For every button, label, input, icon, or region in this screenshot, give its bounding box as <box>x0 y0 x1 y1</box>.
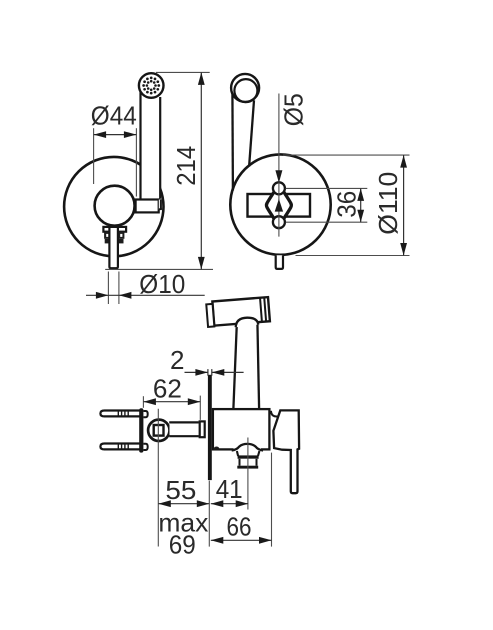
dimension 69 text <box>169 530 196 560</box>
center line side view <box>278 94 280 237</box>
spout center line bottom view <box>247 438 249 510</box>
dimension Ø110 extension lines <box>283 155 410 255</box>
dimension Ø10 text <box>139 269 185 299</box>
dimension 55 line and arrows <box>158 500 209 507</box>
control knob circle front view <box>95 186 135 226</box>
body screw dot bottom view <box>214 447 220 451</box>
svg-text:Ø44: Ø44 <box>91 100 137 130</box>
wall nut bottom view <box>200 421 205 437</box>
dimension Ø44 text <box>91 100 137 130</box>
eccentric anchor rod lower bottom view <box>100 444 141 450</box>
dimension 2 lines and arrows <box>185 369 244 376</box>
dimension 36 line and arrows <box>357 188 364 222</box>
svg-text:41: 41 <box>216 474 243 504</box>
connector rod to body bottom view <box>169 422 199 436</box>
dimension 214 text <box>171 146 201 186</box>
dimension Ø10 extension lines <box>108 272 119 305</box>
dimension 214 line and arrows <box>198 72 205 269</box>
handle bracket front view <box>136 199 162 212</box>
dimension 41 text <box>216 474 243 504</box>
outlet collar tier 1 front view <box>103 227 126 232</box>
leader arrow Ø5 pointing down <box>275 170 282 183</box>
svg-text:214: 214 <box>171 146 201 186</box>
screw circle lower side view <box>273 216 285 228</box>
svg-text:36: 36 <box>332 191 362 218</box>
spray face dots front view <box>142 77 160 95</box>
inlet union circle bottom view <box>148 420 169 441</box>
dimension Ø5 text <box>278 93 308 126</box>
aerator bottom band bottom view <box>237 466 258 469</box>
svg-text:55: 55 <box>165 475 196 505</box>
wall plate edge bottom view <box>208 375 212 480</box>
dimension Ø44 extension lines <box>94 128 137 196</box>
mixer body bottom view <box>213 409 270 449</box>
dimension 66 line and arrows <box>211 537 272 544</box>
svg-text:Ø110: Ø110 <box>373 172 403 235</box>
square broach bottom view <box>154 425 164 436</box>
dimension max text <box>158 508 208 538</box>
dimension 62 text <box>153 374 182 404</box>
svg-text:62: 62 <box>153 374 182 404</box>
svg-text:2: 2 <box>170 345 184 375</box>
svg-text:69: 69 <box>169 530 196 560</box>
shower head bottom view <box>206 297 270 327</box>
shower head inner rim circle side view <box>234 79 257 102</box>
shower handle side view <box>232 89 254 191</box>
dimension 55 text <box>165 475 196 505</box>
svg-text:Ø10: Ø10 <box>139 269 185 299</box>
mounting bracket bar bottom view <box>140 409 142 451</box>
outlet tailpiece side view <box>276 255 283 269</box>
dimension 62 extension lines <box>143 396 200 420</box>
dimension 36 text <box>332 191 362 218</box>
shower head outer circle side view <box>231 74 259 102</box>
flow arrow pointing up <box>275 199 283 212</box>
flow spindle marquise side view <box>266 185 291 227</box>
dimension Ø110 text <box>373 172 403 235</box>
aerator top band bottom view <box>238 455 259 458</box>
shower handle bottom view <box>233 322 259 409</box>
extension line body front bottom view <box>271 453 273 547</box>
outlet nut tier 2 front view <box>104 232 124 239</box>
dimension 214 extension line bottom <box>105 268 213 270</box>
dimension 2 text <box>170 345 184 375</box>
spout dome bottom view <box>232 444 263 456</box>
bracket clip lower bottom view <box>144 444 148 450</box>
inlet center line bottom view <box>157 409 159 547</box>
dimension 66 text <box>227 512 252 542</box>
handle swivel dome bottom view <box>236 318 259 328</box>
bracket clip upper bottom view <box>144 411 148 417</box>
shower handle front view <box>140 90 160 199</box>
dimension 41 line and arrows <box>211 500 248 507</box>
screw circle upper side view <box>273 182 285 194</box>
svg-text:Ø5: Ø5 <box>278 93 308 126</box>
outlet tube front view <box>109 228 118 268</box>
shower head circle front view <box>139 73 164 98</box>
lever handle bottom view <box>273 410 299 493</box>
aerator body bottom view <box>239 459 258 466</box>
outlet nut tier 3 front view <box>105 239 124 244</box>
dimension Ø10 line and arrows <box>86 292 205 299</box>
escutcheon circle front view <box>64 157 163 256</box>
dimension 214 extension line top <box>156 71 210 73</box>
dimension Ø44 line and arrows <box>94 131 137 138</box>
dimension 36 extension lines <box>286 188 368 222</box>
cartridge cap curve bottom view <box>271 411 278 417</box>
dimension Ø110 line and arrows <box>400 155 407 255</box>
escutcheon circle side view <box>230 154 330 254</box>
svg-text:66: 66 <box>227 512 252 542</box>
extension line below plate bottom view <box>208 481 210 547</box>
valve housing rectangle side view <box>248 194 311 217</box>
eccentric anchor rod upper bottom view <box>100 411 141 417</box>
dimension 62 line and arrows <box>143 398 200 405</box>
